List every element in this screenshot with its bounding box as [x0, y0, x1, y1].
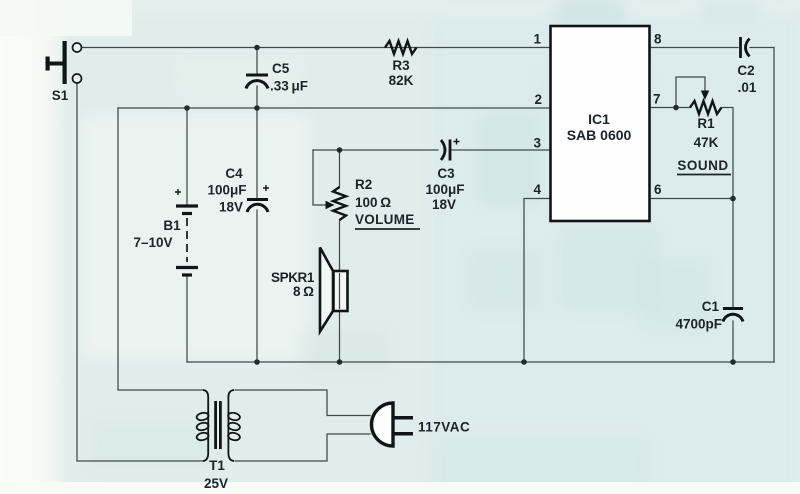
svg-text:7–10V: 7–10V [133, 235, 172, 250]
wire: transformer secondary bottom to plug [235, 434, 370, 461]
speaker SPKR1 [271, 248, 348, 332]
svg-text:100 Ω: 100 Ω [355, 195, 391, 210]
junction: pin 3 row / R2 [337, 147, 343, 153]
wire: top rail S1 to IC pin 1 [82, 47, 550, 49]
wire: left inner vertical to transformer primary top [118, 108, 203, 390]
potentiometer R1 [677, 91, 731, 175]
junction: pin 6 / R1 branch [730, 196, 736, 202]
svg-text:C3: C3 [437, 166, 455, 181]
wire: battery top lead [186, 108, 188, 204]
svg-text:SPKR1: SPKR1 [271, 270, 315, 285]
junction: second rail / battery [184, 105, 190, 111]
svg-text:C1: C1 [702, 299, 720, 314]
svg-text:2: 2 [534, 92, 542, 107]
svg-text:C5: C5 [272, 61, 290, 76]
capacitor C2 [737, 37, 757, 95]
svg-text:7: 7 [653, 92, 661, 107]
wire: C4 bottom lead [256, 210, 258, 362]
resistor R3 [385, 41, 417, 88]
wire: R2 bottom through speaker to bus [339, 220, 341, 362]
wire: IC pin 7 to R1 [650, 107, 690, 109]
svg-text:100μF: 100μF [207, 183, 246, 198]
capacitor C4 [207, 166, 269, 215]
svg-text:R3: R3 [392, 58, 410, 73]
junction: bus / C4 [254, 359, 260, 365]
wire: pin 3 row right of C3 [452, 149, 550, 151]
capacitor C3 [425, 139, 464, 213]
AC plug P1 [372, 403, 471, 446]
wire: battery bottom lead to ground bus [186, 277, 188, 362]
svg-text:47K: 47K [694, 135, 719, 150]
junction: bus / C1 [730, 359, 736, 365]
svg-text:25V: 25V [204, 476, 228, 491]
svg-text:R2: R2 [355, 177, 372, 192]
svg-text:B1: B1 [163, 218, 181, 233]
transformer T1 [196, 390, 241, 491]
svg-text:VOLUME: VOLUME [355, 212, 415, 227]
capacitor C5 [246, 61, 308, 94]
svg-text:.33 μF: .33 μF [270, 79, 308, 94]
wire: second rail to IC pin 2 [118, 107, 550, 109]
capacitor C1 [675, 299, 743, 332]
wire: R1 wiper tap [676, 77, 705, 108]
svg-text:8: 8 [654, 32, 662, 47]
wire: R2 wiper loop [313, 150, 326, 205]
svg-text:SOUND: SOUND [677, 158, 728, 173]
wire: C1 bottom lead [732, 321, 734, 362]
svg-text:C2: C2 [737, 63, 754, 78]
svg-text:82K: 82K [389, 73, 414, 88]
wire: IC pin 6 row [650, 198, 733, 200]
wire: bottom ground bus [187, 361, 774, 363]
svg-text:4700pF: 4700pF [675, 317, 722, 332]
wire: C1 top lead [732, 199, 734, 308]
svg-text:18V: 18V [219, 200, 243, 215]
junction: second rail / C4 [254, 105, 260, 111]
wire: C5 top lead [256, 48, 258, 74]
wire: S1 lower terminal down left side [77, 84, 203, 462]
svg-text:S1: S1 [52, 88, 69, 103]
wire: IC pin 8 to C2 [650, 47, 738, 49]
svg-text:8 Ω: 8 Ω [293, 284, 314, 299]
potentiometer R2 [326, 177, 421, 229]
junction: pin 7 / wiper tap [673, 105, 679, 111]
junction: top rail / C5 [254, 45, 260, 51]
svg-text:T1: T1 [209, 458, 225, 473]
wire: pin 3 row left of C3 [313, 149, 438, 151]
switch S1 [46, 41, 82, 103]
wire: R2 top stub [339, 150, 341, 187]
svg-text:C4: C4 [225, 166, 243, 181]
wire: right rail vertical [773, 48, 775, 363]
wire: C2 to right rail corner [750, 47, 774, 49]
svg-text:.01: .01 [738, 80, 757, 95]
svg-text:R1: R1 [697, 116, 715, 131]
wire: transformer secondary top to plug [235, 390, 370, 416]
wire: IC pin 4 to bus [524, 199, 550, 363]
svg-text:1: 1 [533, 32, 541, 47]
svg-text:SAB 0600: SAB 0600 [567, 127, 632, 143]
junction: bus / speaker [337, 359, 343, 365]
svg-text:18V: 18V [432, 197, 456, 212]
wire: R1 right lead down [722, 108, 733, 199]
IC U1 SAB0600 [551, 26, 650, 221]
junction: bus / pin 4 [521, 359, 527, 365]
svg-text:6: 6 [654, 182, 662, 197]
svg-text:4: 4 [533, 182, 541, 197]
svg-text:IC1: IC1 [588, 111, 610, 127]
wire: C5 bottom lead [256, 86, 258, 108]
svg-text:100μF: 100μF [425, 182, 464, 197]
wire: C4 top lead [256, 108, 258, 198]
battery B1 [133, 189, 198, 275]
svg-text:3: 3 [533, 136, 541, 151]
svg-text:117VAC: 117VAC [418, 420, 470, 435]
